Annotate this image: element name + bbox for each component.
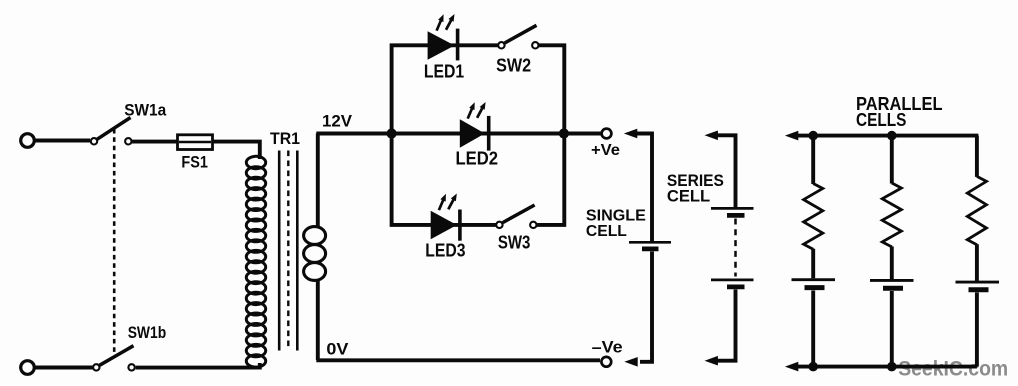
- svg-text:CELLS: CELLS: [856, 109, 906, 130]
- svg-text:SW3: SW3: [498, 233, 531, 253]
- svg-text:SW1a: SW1a: [124, 101, 166, 120]
- svg-text:CELL: CELL: [667, 187, 710, 206]
- svg-text:LED2: LED2: [456, 148, 499, 169]
- svg-text:–Ve: –Ve: [592, 338, 623, 357]
- svg-text:LED3: LED3: [425, 239, 465, 260]
- svg-text:SW1b: SW1b: [128, 323, 167, 342]
- svg-text:LED1: LED1: [424, 60, 464, 81]
- svg-text:12V: 12V: [322, 112, 353, 131]
- svg-text:FS1: FS1: [181, 152, 208, 171]
- svg-text:0V: 0V: [326, 339, 349, 358]
- svg-text:SeekIC.com: SeekIC.com: [898, 357, 1008, 380]
- svg-text:CELL: CELL: [586, 223, 627, 240]
- svg-text:SW2: SW2: [496, 56, 531, 76]
- svg-text:TR1: TR1: [270, 129, 300, 148]
- svg-text:+Ve: +Ve: [591, 142, 620, 159]
